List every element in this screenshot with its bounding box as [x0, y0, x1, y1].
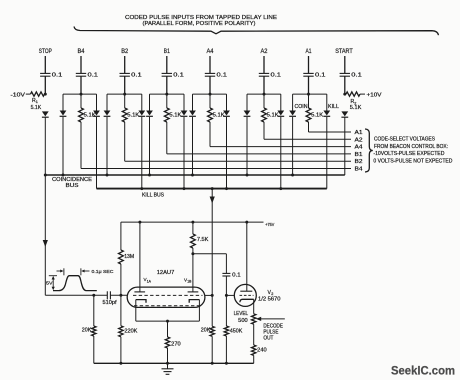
svg-text:KILL BUS: KILL BUS: [142, 192, 165, 198]
svg-text:450K: 450K: [230, 328, 243, 334]
svg-text:20K: 20K: [201, 328, 211, 334]
svg-text:12AU7: 12AU7: [157, 270, 175, 276]
svg-text:+75V: +75V: [265, 222, 275, 227]
svg-text:COIN: COIN: [295, 104, 308, 110]
svg-text:-10V: -10V: [11, 92, 26, 98]
svg-text:0.1: 0.1: [88, 73, 99, 79]
svg-text:0.1: 0.1: [315, 73, 326, 79]
svg-text:SeekIC.com: SeekIC.com: [391, 366, 455, 378]
svg-text:1B: 1B: [187, 280, 192, 284]
svg-text:13M: 13M: [124, 254, 134, 260]
svg-text:5.1K: 5.1K: [267, 113, 280, 119]
svg-text:1A: 1A: [147, 279, 152, 283]
svg-text:STOP: STOP: [39, 48, 52, 55]
svg-text:5.1K: 5.1K: [169, 113, 182, 119]
svg-text:220K: 220K: [124, 328, 138, 334]
svg-text:0.1: 0.1: [52, 73, 63, 79]
svg-text:LEVEL: LEVEL: [234, 311, 249, 317]
svg-text:0.1: 0.1: [351, 73, 362, 79]
svg-text:DECODE: DECODE: [263, 324, 283, 330]
svg-text:+10V: +10V: [367, 92, 382, 98]
svg-text:5.1K: 5.1K: [311, 113, 324, 119]
svg-text:240: 240: [257, 348, 267, 354]
svg-text:START: START: [335, 48, 353, 55]
svg-text:0.1μ SEC: 0.1μ SEC: [92, 269, 115, 275]
svg-text:B2: B2: [121, 48, 128, 55]
svg-text:KILL: KILL: [328, 104, 339, 110]
svg-text:500: 500: [238, 318, 248, 324]
svg-text:CODE-SELECT VOLTAGES: CODE-SELECT VOLTAGES: [374, 137, 436, 143]
svg-text:A4: A4: [355, 145, 363, 151]
svg-text:2: 2: [271, 292, 273, 296]
svg-text:0 VOLTS-PULSE NOT EXPECTED: 0 VOLTS-PULSE NOT EXPECTED: [373, 158, 452, 164]
svg-text:B4: B4: [78, 48, 85, 55]
svg-text:1: 1: [36, 100, 38, 104]
svg-text:A4: A4: [207, 48, 214, 55]
svg-text:OUT: OUT: [263, 336, 274, 342]
svg-text:20K: 20K: [82, 328, 92, 334]
svg-text:270: 270: [171, 342, 181, 348]
svg-text:B4: B4: [355, 167, 363, 173]
svg-text:5.1K: 5.1K: [213, 113, 226, 119]
svg-text:5.1K: 5.1K: [31, 105, 42, 111]
svg-text:BUS: BUS: [66, 183, 80, 189]
svg-text:5.1K: 5.1K: [84, 113, 97, 119]
svg-text:5V: 5V: [46, 281, 53, 287]
svg-text:510pf: 510pf: [103, 300, 118, 306]
svg-text:(PARALLEL FORM, POSITIVE POLAR: (PARALLEL FORM, POSITIVE POLARITY): [143, 21, 256, 27]
svg-text:A1: A1: [306, 48, 312, 55]
svg-text:A2: A2: [355, 137, 363, 143]
svg-text:0.1: 0.1: [271, 73, 282, 79]
svg-text:-10VOLTS-PULSE EXPECTED: -10VOLTS-PULSE EXPECTED: [373, 151, 444, 157]
svg-text:B1: B1: [355, 152, 363, 158]
svg-text:5.1K: 5.1K: [350, 105, 362, 111]
svg-text:1/2 5670: 1/2 5670: [258, 297, 281, 303]
svg-text:FROM BEACON CONTROL BOX:: FROM BEACON CONTROL BOX:: [374, 144, 448, 150]
svg-text:B1: B1: [164, 48, 170, 55]
svg-text:0.1: 0.1: [173, 73, 184, 79]
svg-text:0.1: 0.1: [217, 73, 228, 79]
svg-text:A1: A1: [355, 130, 363, 136]
svg-text:A2: A2: [261, 48, 268, 55]
svg-text:0.1: 0.1: [131, 73, 142, 79]
svg-text:B2: B2: [355, 159, 363, 165]
svg-text:5.1K: 5.1K: [127, 113, 140, 119]
svg-text:7.5K: 7.5K: [197, 237, 209, 243]
svg-text:0.1: 0.1: [232, 272, 241, 278]
